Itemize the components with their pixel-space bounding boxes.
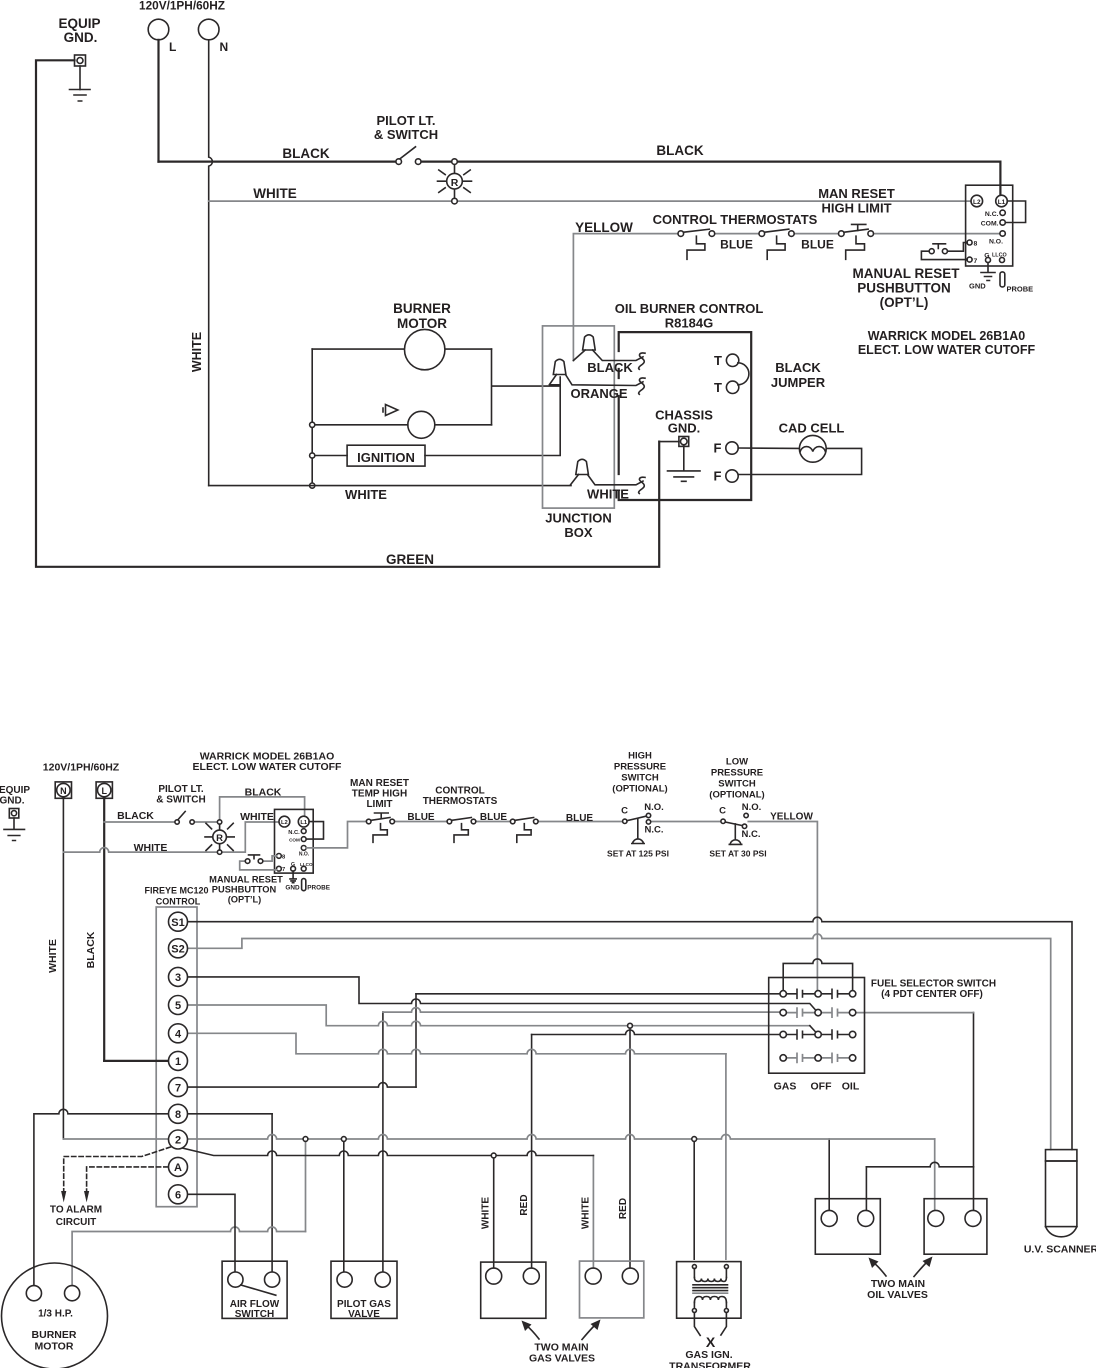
transformer right riser (wire 4): [725, 1054, 727, 1259]
oil valve box 2: [924, 1199, 987, 1255]
svg-text:PUSHBUTTON: PUSHBUTTON: [857, 281, 951, 296]
terminal 4: [169, 1024, 188, 1043]
wire 2 neutral run: [188, 1135, 935, 1140]
svg-text:N.C.: N.C.: [645, 825, 664, 836]
svg-text:MAN RESET: MAN RESET: [818, 186, 895, 201]
svg-text:CIRCUIT: CIRCUIT: [56, 1217, 97, 1228]
svg-text:BLUE: BLUE: [720, 238, 753, 252]
neutral junction dot to pilot valve: [341, 1137, 346, 1142]
ignitor wire: [312, 424, 491, 426]
transformer core: [693, 1284, 728, 1286]
svg-text:PROBE: PROBE: [1007, 285, 1034, 294]
wire chain from mini NO to yellow drop: [306, 822, 817, 991]
pilot lamp R bottom: [217, 820, 221, 824]
svg-text:PRESSURE: PRESSURE: [711, 768, 763, 779]
manual reset pushbutton: [921, 251, 967, 259]
svg-text:& SWITCH: & SWITCH: [156, 795, 205, 806]
svg-text:ELECT. LOW WATER CUTOFF: ELECT. LOW WATER CUTOFF: [858, 343, 1036, 357]
svg-text:7: 7: [974, 258, 978, 265]
svg-text:BLUE: BLUE: [480, 812, 508, 823]
oil burner control box: [619, 332, 752, 500]
svg-text:WHITE: WHITE: [253, 186, 297, 201]
svg-text:MANUAL RESET: MANUAL RESET: [852, 266, 960, 281]
svg-text:MOTOR: MOTOR: [397, 316, 447, 331]
chassis ground symbol: [668, 446, 701, 481]
terminal S2: [169, 939, 188, 958]
svg-text:N.O.: N.O.: [299, 851, 310, 857]
svg-text:C: C: [719, 806, 726, 817]
svg-text:SWITCH: SWITCH: [235, 1309, 274, 1320]
svg-text:WHITE: WHITE: [190, 332, 204, 372]
wire S1: [188, 917, 1073, 1149]
burner motor circle: [405, 329, 445, 369]
svg-text:N.O.: N.O.: [644, 802, 664, 813]
gas valve box 2: [580, 1261, 644, 1318]
svg-text:WHITE: WHITE: [481, 1197, 492, 1230]
pilot light R with rays: [454, 164, 456, 198]
low pressure switch: [721, 819, 725, 823]
svg-text:PILOT LT.: PILOT LT.: [158, 784, 204, 795]
terminal L: [148, 19, 169, 40]
pilot switch contacts on black wire: [396, 159, 402, 165]
svg-text:C: C: [621, 806, 628, 817]
pilot gas valve box: [331, 1261, 397, 1318]
svg-text:L2: L2: [973, 199, 981, 206]
wire 4: [188, 1033, 726, 1054]
svg-text:GAS VALVES: GAS VALVES: [529, 1353, 595, 1365]
svg-text:GAS IGN.: GAS IGN.: [685, 1349, 732, 1361]
svg-text:OFF: OFF: [811, 1081, 833, 1093]
selector row 3: [786, 1030, 849, 1039]
F terminals: [726, 442, 738, 454]
IGNITION box: [347, 445, 425, 466]
high pressure switch: [623, 819, 627, 823]
svg-text:R: R: [451, 177, 459, 189]
svg-text:6: 6: [175, 1190, 181, 1202]
svg-text:RED: RED: [618, 1198, 629, 1219]
squiggle black: [639, 353, 645, 369]
svg-text:JUMPER: JUMPER: [771, 375, 826, 390]
pilot valve right riser (row2 left wire): [382, 1012, 384, 1272]
yellow entry bracket: [783, 959, 852, 990]
transformer spark gap: [694, 1313, 726, 1336]
svg-text:7: 7: [175, 1082, 181, 1094]
svg-text:BLUE: BLUE: [801, 238, 834, 252]
svg-text:R8184G: R8184G: [665, 316, 713, 331]
terminal L bottom (circle in square): [96, 782, 112, 798]
svg-text:LLCO: LLCO: [992, 253, 1007, 259]
terminal L2 mini: [279, 816, 290, 827]
label TWO MAIN OIL VALVES with arrows: [874, 1263, 887, 1277]
mini manual reset pushbutton: [240, 856, 277, 870]
svg-text:JUNCTION: JUNCTION: [545, 511, 611, 526]
svg-text:EQUIP: EQUIP: [58, 16, 100, 31]
gas valve 1 RED riser (row3 left wire): [531, 1035, 533, 1269]
svg-text:& SWITCH: & SWITCH: [374, 127, 438, 142]
wire L vertical bottom (black): [103, 798, 105, 1061]
svg-text:LLCO: LLCO: [300, 862, 313, 867]
NC terminal and jumper from L1 to COM: [1005, 201, 1025, 223]
motor right riser from neutral dot: [305, 1139, 307, 1232]
wire 7 vertical riser: [415, 994, 417, 1087]
transformer left riser (from neutral dot): [693, 1139, 695, 1259]
svg-text:BURNER: BURNER: [393, 301, 451, 316]
svg-text:PILOT LT.: PILOT LT.: [377, 113, 436, 128]
svg-text:BLUE: BLUE: [407, 812, 435, 823]
svg-text:PRESSURE: PRESSURE: [614, 762, 666, 773]
gas valve 2 RED riser (from wire 5 dot): [629, 1026, 631, 1269]
dashed alarm line from A: [87, 1167, 168, 1191]
svg-text:BOX: BOX: [564, 525, 593, 540]
wire N vertical (white, grey): [209, 40, 213, 486]
svg-text:F: F: [714, 441, 722, 456]
svg-text:U.V. SCANNER: U.V. SCANNER: [1024, 1244, 1096, 1256]
svg-text:N: N: [220, 40, 229, 54]
svg-text:120V/1PH/60HZ: 120V/1PH/60HZ: [43, 762, 120, 774]
motor loop top wire: [312, 348, 491, 350]
mini NC terminal and jumper: [306, 822, 323, 840]
man reset high limit contact: [839, 231, 845, 237]
oil valve 1 left riser (T from neutral): [828, 1139, 830, 1211]
svg-text:N.C.: N.C.: [288, 830, 300, 836]
wire 6 to air flow switch: [188, 1194, 236, 1272]
svg-text:GND.: GND.: [668, 421, 701, 436]
thermostat contact 1: [678, 231, 684, 237]
thermostat contact 2: [759, 231, 765, 237]
mini terminal 8: [277, 854, 282, 859]
svg-text:OIL: OIL: [842, 1081, 860, 1093]
terminal 7: [967, 257, 972, 262]
svg-text:BLACK: BLACK: [117, 810, 154, 822]
COM terminal: [1000, 220, 1005, 225]
svg-text:7: 7: [282, 867, 285, 873]
svg-text:WHITE: WHITE: [587, 487, 629, 502]
svg-text:F: F: [714, 469, 722, 484]
svg-text:L1: L1: [300, 820, 308, 826]
neutral junction dot to transformer: [692, 1137, 697, 1142]
wire N vertical bottom (white): [62, 798, 64, 1139]
chassis ground terminal: [679, 437, 689, 447]
transformer primary: [692, 1265, 696, 1269]
wire 5: [188, 1005, 810, 1026]
transformer secondary: [694, 1297, 726, 1303]
wire 7 top run to selector row 1: [416, 993, 780, 995]
svg-text:GND: GND: [285, 885, 300, 892]
svg-text:N.O.: N.O.: [989, 239, 1003, 246]
svg-text:S1: S1: [171, 917, 184, 929]
mini LLCO terminal: [301, 866, 306, 871]
oil valve box 1: [815, 1199, 880, 1255]
ignition wire: [312, 377, 560, 456]
wire 2 lower branch (valve whites): [176, 1147, 593, 1156]
equip ground square terminal: [75, 55, 86, 66]
svg-text:IGNITION: IGNITION: [357, 450, 415, 465]
ignitor circle: [408, 411, 435, 438]
G terminal: [986, 258, 991, 263]
equip gnd square bottom: [9, 809, 18, 819]
svg-text:MAN RESET: MAN RESET: [350, 778, 409, 789]
svg-text:1/3 H.P.: 1/3 H.P.: [38, 1309, 73, 1320]
svg-text:4: 4: [175, 1029, 182, 1041]
svg-text:SWITCH: SWITCH: [621, 773, 659, 784]
terminal A: [169, 1157, 188, 1176]
svg-text:T: T: [714, 353, 722, 368]
svg-text:SWITCH: SWITCH: [718, 779, 756, 790]
terminal L1 mini: [298, 816, 309, 827]
svg-text:120V/1PH/60HZ: 120V/1PH/60HZ: [139, 0, 225, 13]
wire 8 right: [188, 1113, 273, 1115]
svg-text:CAD CELL: CAD CELL: [779, 421, 845, 436]
terminal 7: [169, 1078, 188, 1097]
svg-text:(OPTIONAL): (OPTIONAL): [612, 784, 667, 795]
mini terminal 7: [277, 866, 282, 871]
svg-text:8: 8: [175, 1109, 181, 1121]
GND symbol under G: [981, 263, 995, 281]
svg-text:2: 2: [175, 1135, 181, 1147]
svg-text:TRANSFORMER: TRANSFORMER: [669, 1361, 751, 1368]
wire BLACK top horizontal with hump over N and to L1: [159, 162, 1001, 196]
junction node dots on left vertical: [310, 422, 315, 427]
terminal 8: [169, 1104, 188, 1123]
wire S2: [188, 934, 1051, 1150]
svg-text:ELECT. LOW WATER CUTOFF: ELECT. LOW WATER CUTOFF: [193, 761, 343, 773]
svg-text:YELLOW: YELLOW: [770, 812, 813, 823]
mini COM terminal: [301, 837, 306, 842]
terminal N bottom (circle in square): [55, 782, 71, 798]
svg-text:G: G: [984, 253, 989, 260]
mini PROBE: [302, 879, 306, 891]
svg-text:S2: S2: [171, 944, 184, 956]
svg-text:BURNER: BURNER: [32, 1329, 77, 1341]
svg-text:T: T: [714, 380, 722, 395]
svg-text:GND: GND: [969, 282, 986, 291]
selector row 1: [786, 989, 849, 998]
oil valve 1 right riser: [865, 1167, 867, 1211]
wire 5 diagonal into row 3 center: [810, 1026, 816, 1033]
svg-text:(OPTIONAL): (OPTIONAL): [709, 790, 764, 801]
terminal N: [198, 19, 219, 40]
oil valves OIL-feed riser (row2 right): [973, 1013, 975, 1211]
svg-text:BLACK: BLACK: [85, 931, 97, 968]
gas valve box 1: [481, 1262, 546, 1318]
svg-text:OIL BURNER CONTROL: OIL BURNER CONTROL: [615, 301, 764, 316]
squiggle orange: [639, 378, 645, 394]
neutral junction dot to motor: [303, 1137, 308, 1142]
wire 3: [188, 977, 816, 1011]
svg-text:WHITE: WHITE: [581, 1197, 592, 1230]
svg-text:BLACK: BLACK: [587, 360, 633, 375]
terminal L2: [971, 195, 983, 207]
svg-text:WARRICK MODEL 26B1A0: WARRICK MODEL 26B1A0: [868, 329, 1025, 343]
svg-text:LIMIT: LIMIT: [366, 799, 392, 810]
wire black from L to pilot switch and lamp top node: [104, 821, 217, 823]
wire nut 1 (yellow-black): [573, 350, 643, 361]
motor loop left vertical: [311, 349, 313, 486]
motor loop right vertical and feed to junction box: [492, 349, 561, 425]
wire 2 left from N riser: [63, 1138, 169, 1140]
air flow switch box: [222, 1261, 287, 1318]
svg-text:N: N: [60, 786, 67, 796]
terminal 2: [169, 1130, 188, 1149]
svg-text:TO ALARM: TO ALARM: [50, 1205, 102, 1216]
fireye control box: [156, 907, 197, 1207]
svg-text:PUSHBUTTON: PUSHBUTTON: [212, 885, 277, 895]
ignitor triangle symbol: [383, 405, 398, 416]
svg-text:BLACK: BLACK: [656, 143, 703, 158]
svg-text:COM.: COM.: [981, 221, 999, 228]
wire L vertical (black): [157, 40, 159, 162]
svg-text:HIGH LIMIT: HIGH LIMIT: [821, 201, 891, 216]
wire 8 lower vertical to air flow switch: [271, 1114, 273, 1272]
label TWO MAIN GAS VALVES with arrows: [527, 1326, 540, 1340]
neutral end riser to oil valve 2 left: [934, 1139, 936, 1211]
svg-text:L: L: [101, 786, 107, 796]
motor right wire to neutral dot: [72, 1227, 305, 1286]
svg-text:COM: COM: [289, 837, 300, 842]
squiggle white: [639, 477, 645, 493]
row 2 right wire to oil valves: [856, 1012, 974, 1014]
NO terminal: [1000, 231, 1005, 236]
svg-text:RED: RED: [519, 1194, 530, 1215]
svg-text:VALVE: VALVE: [348, 1309, 380, 1320]
junction dot wire5/red2: [628, 1023, 633, 1028]
wire 7: [188, 1083, 417, 1088]
svg-text:BLUE: BLUE: [566, 813, 594, 824]
T terminals with black jumper: [726, 354, 738, 366]
mini GND symbol: [290, 871, 296, 883]
wire WHITE horizontal to L2: [209, 200, 972, 202]
warrick box top: [966, 185, 1013, 266]
svg-text:MOTOR: MOTOR: [35, 1341, 74, 1353]
svg-text:WHITE: WHITE: [345, 487, 387, 502]
svg-text:THERMOSTATS: THERMOSTATS: [423, 796, 498, 807]
cad cell symbol: [799, 435, 826, 462]
terminal 5: [169, 996, 188, 1015]
cad cell wiring: [738, 448, 861, 475]
svg-text:GAS: GAS: [774, 1081, 797, 1093]
terminal S1: [169, 912, 188, 931]
svg-text:N.O.: N.O.: [742, 802, 762, 813]
svg-text:GREEN: GREEN: [386, 552, 434, 567]
svg-text:HIGH: HIGH: [628, 751, 652, 762]
wire black upper jumper to L1: [220, 797, 305, 822]
wire 8 left to burner motor: [34, 1109, 169, 1285]
row 3 left wire: [532, 1030, 780, 1035]
svg-text:GND.: GND.: [64, 30, 98, 45]
terminal 6: [169, 1185, 188, 1204]
mini G terminal: [291, 866, 296, 871]
svg-text:OIL VALVES: OIL VALVES: [867, 1289, 928, 1301]
svg-text:N.C.: N.C.: [742, 829, 761, 840]
svg-text:WHITE: WHITE: [47, 939, 59, 973]
svg-text:PROBE: PROBE: [307, 885, 330, 892]
pilot switch contacts bottom: [175, 820, 179, 824]
gas valve 1 WHITE riser (from lower line dot): [493, 1156, 495, 1269]
svg-text:MANUAL RESET: MANUAL RESET: [209, 875, 283, 885]
equip ground symbol: [79, 66, 81, 90]
terminal 3: [169, 967, 188, 986]
svg-text:CONTROL: CONTROL: [435, 786, 484, 797]
svg-text:X: X: [706, 1334, 716, 1350]
svg-text:CONTROL THERMOSTATS: CONTROL THERMOSTATS: [653, 212, 818, 227]
wire nut 2 (orange): [550, 375, 644, 386]
svg-text:SET AT 125 PSI: SET AT 125 PSI: [607, 849, 669, 859]
svg-text:CONTROL: CONTROL: [156, 897, 201, 907]
PROBE symbol: [1000, 272, 1005, 287]
mini warrick box: [275, 809, 314, 873]
svg-text:(OPT’L): (OPT’L): [880, 295, 929, 310]
svg-text:(OPT’L): (OPT’L): [228, 895, 262, 905]
selector row 4: [786, 1053, 849, 1062]
junction box rectangle: [543, 326, 615, 508]
svg-text:GND.: GND.: [0, 796, 25, 807]
svg-text:SET AT 30 PSI: SET AT 30 PSI: [709, 849, 766, 859]
wire 1 from L riser: [104, 1060, 169, 1062]
svg-text:L2: L2: [281, 820, 288, 826]
terminal 8: [967, 240, 972, 245]
svg-text:1: 1: [175, 1056, 181, 1068]
mini NO terminal: [301, 846, 306, 851]
svg-text:L: L: [169, 40, 176, 54]
svg-text:5: 5: [175, 1000, 181, 1012]
svg-text:8: 8: [974, 241, 978, 248]
svg-text:TEMP HIGH: TEMP HIGH: [352, 789, 407, 800]
svg-text:BLACK: BLACK: [775, 360, 821, 375]
svg-text:R: R: [216, 833, 223, 844]
wire white from N to lamp bottom node and up to L2: [63, 822, 279, 852]
pilot valve left riser (from neutral dot): [343, 1139, 345, 1272]
bottom thermostat contact 1: [447, 819, 452, 824]
svg-text:A: A: [174, 1162, 182, 1174]
svg-text:FIREYE MC120: FIREYE MC120: [144, 886, 208, 896]
lower branch junction dot: [491, 1153, 496, 1158]
wire YELLOW horizontal and down to junction box: [573, 234, 1000, 361]
svg-text:L1: L1: [998, 199, 1006, 206]
terminal L1: [996, 195, 1008, 207]
gas valve 2 WHITE riser: [592, 1156, 594, 1269]
svg-text:G: G: [291, 862, 295, 868]
wire WHITE bottom horizontal: [209, 485, 571, 487]
selector box: [769, 978, 865, 1074]
svg-text:BLACK: BLACK: [282, 146, 329, 161]
LLCO terminal: [1000, 258, 1005, 263]
row 2 left wire: [383, 1008, 780, 1013]
terminal 1: [169, 1051, 188, 1070]
man reset temp high limit contact: [366, 819, 371, 824]
gas ignition transformer box: [677, 1262, 741, 1319]
svg-text:(4 PDT CENTER OFF): (4 PDT CENTER OFF): [881, 989, 983, 1000]
wire nut 3 (white): [571, 475, 644, 485]
svg-text:LOW: LOW: [726, 757, 748, 768]
selector row 2: [786, 1008, 849, 1017]
svg-text:ORANGE: ORANGE: [570, 386, 627, 401]
svg-text:N.C.: N.C.: [985, 211, 999, 218]
burner motor bottom: [2, 1263, 108, 1368]
green wire from equip gnd down and across: [36, 60, 659, 567]
bottom thermostat contact 2: [510, 819, 515, 824]
oil valves right-terminal link: [866, 1162, 973, 1167]
dashed alarm line from 2: [64, 1147, 171, 1191]
svg-text:3: 3: [175, 972, 181, 984]
svg-text:EQUIP: EQUIP: [0, 785, 30, 796]
